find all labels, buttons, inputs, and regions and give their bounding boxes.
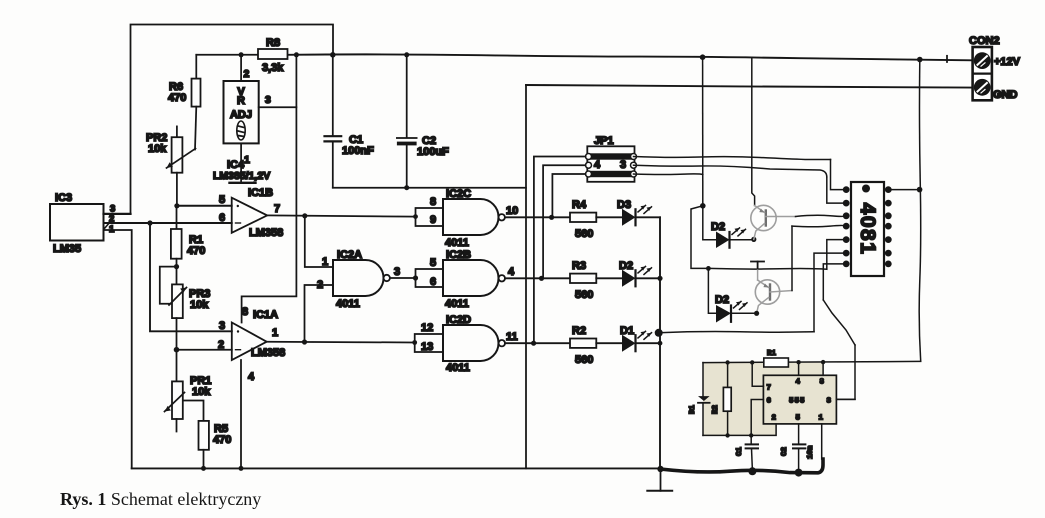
resistor R2 555	[723, 363, 731, 436]
wire IC3 pin2 to IC1B pin6	[104, 222, 232, 224]
svg-text:2: 2	[218, 339, 224, 351]
wire IC2C output pin10	[505, 216, 570, 218]
wire IC2D input bracket	[415, 334, 443, 352]
node rail R2	[725, 360, 729, 364]
svg-text:IC2C: IC2C	[446, 188, 471, 200]
svg-text:7: 7	[274, 203, 280, 215]
svg-text:100nF: 100nF	[342, 145, 374, 157]
connector CON2	[973, 47, 992, 100]
wire D2 cathode to bus	[636, 277, 661, 279]
potentiometer PR2	[167, 126, 196, 205]
wire 555 top rail	[703, 361, 921, 362]
svg-text:1: 1	[322, 256, 328, 268]
wire IC1A pin4 to gnd	[240, 360, 242, 468]
svg-text:D3: D3	[617, 199, 631, 211]
svg-text:7: 7	[767, 385, 772, 393]
svg-text:IC2B: IC2B	[446, 249, 471, 261]
svg-text:C1: C1	[736, 446, 744, 456]
svg-text:4: 4	[594, 159, 601, 171]
wire IC2C input bracket	[416, 208, 444, 226]
svg-text:100uF: 100uF	[417, 146, 449, 158]
resistor R1	[171, 206, 182, 267]
wire IC1B pin5	[177, 205, 232, 207]
wire IC1A pin2	[177, 349, 232, 351]
svg-text:GND: GND	[993, 89, 1018, 101]
svg-text:12: 12	[421, 322, 433, 334]
svg-text:D1: D1	[620, 325, 634, 337]
node lower branch pin5 tap	[706, 266, 711, 271]
svg-text:4081: 4081	[856, 203, 879, 256]
wire JP1 left row1 to IC2D out	[534, 157, 586, 344]
svg-text:6: 6	[219, 212, 225, 224]
svg-text:3,3k: 3,3k	[262, 62, 284, 74]
node Q2 emitter	[754, 311, 759, 316]
nand gate IC2A	[333, 260, 390, 296]
wire JP1 left row2 to IC2B out	[542, 165, 586, 278]
potentiometer PR1	[165, 350, 185, 432]
svg-text:IC1A: IC1A	[253, 309, 278, 321]
wire 555 block bottom	[703, 424, 776, 436]
node C2 gnd	[404, 185, 409, 190]
wire 4081 pin top right to +12 vertical	[888, 189, 919, 191]
svg-text:8: 8	[430, 196, 436, 208]
svg-text:JP1: JP1	[594, 135, 614, 147]
svg-text:2: 2	[772, 415, 777, 423]
node bottom R2	[725, 433, 729, 437]
wire IC1A pin3	[150, 223, 232, 331]
wire D3 cathode to bus	[636, 216, 661, 218]
capacitor C2 electrolytic	[397, 55, 417, 188]
wire JP1 right row3 down	[634, 173, 703, 176]
svg-text:11: 11	[506, 331, 518, 343]
svg-text:10n: 10n	[807, 445, 815, 459]
node IC2D in	[412, 340, 417, 345]
node C2b gnd	[795, 469, 803, 477]
svg-text:3: 3	[620, 159, 626, 171]
wire 555 pin8	[822, 362, 824, 375]
led D3	[622, 205, 652, 225]
wire +12V rail	[196, 54, 972, 60]
wire IC4 pin2	[240, 55, 242, 81]
node rail-C1-frame	[330, 52, 336, 58]
node IC2B out jumper tap	[539, 276, 544, 281]
led D1	[622, 331, 652, 351]
svg-text:8: 8	[242, 306, 248, 318]
resistor R5	[184, 401, 209, 469]
led D2	[622, 266, 652, 286]
node IC2A out	[413, 275, 418, 280]
capacitor C2 555	[793, 424, 805, 472]
IC 555 body	[763, 375, 836, 424]
node 4081 right	[917, 187, 923, 193]
node Q branch	[700, 203, 706, 209]
node rail pin7	[750, 360, 754, 364]
T mark above Q2	[751, 262, 764, 269]
wire D1 cathode to bus	[636, 342, 661, 344]
svg-text:560: 560	[575, 228, 593, 240]
wire IC2A output pin3	[390, 277, 416, 279]
svg-text:8: 8	[820, 379, 825, 387]
svg-text:D2: D2	[619, 260, 633, 272]
wire IC4 pin3	[259, 106, 297, 108]
wire 555 pin1	[821, 424, 823, 459]
wire IC2B output pin4	[505, 277, 570, 279]
svg-text:470: 470	[213, 434, 231, 446]
node C1b gnd	[748, 467, 756, 475]
svg-text:10k: 10k	[148, 143, 167, 155]
svg-text:IC2D: IC2D	[446, 314, 471, 326]
svg-text:Rys. 1 Schemat elektryczny: Rys. 1 Schemat elektryczny	[60, 489, 261, 509]
svg-text:470: 470	[168, 92, 186, 104]
node IC1A pin2 junction	[174, 347, 180, 353]
node IC2C out jumper tap	[549, 215, 554, 220]
potentiometer PR3	[160, 267, 187, 350]
wire bottom ground rail	[132, 467, 661, 469]
wire JP1 right row2 to 4081 pin2	[634, 165, 847, 203]
svg-text:3: 3	[827, 398, 832, 406]
wire D2 upper cathode	[730, 239, 754, 241]
svg-text:10k: 10k	[192, 386, 211, 398]
node rail-IC4pin2	[239, 52, 244, 57]
transistor Q2	[755, 269, 792, 314]
wire 555 pin7	[752, 362, 763, 386]
svg-text:LM358: LM358	[251, 347, 285, 359]
svg-text:2: 2	[317, 279, 323, 291]
svg-text:R2: R2	[572, 325, 586, 337]
555 block background	[703, 363, 836, 436]
svg-text:R8: R8	[266, 37, 280, 49]
resistor R4	[570, 213, 622, 222]
wire IC3 pin1	[104, 230, 132, 468]
node R5 gnd	[201, 466, 206, 471]
node D2 bus	[657, 276, 662, 281]
diode D1 555	[698, 363, 710, 436]
svg-text:4: 4	[248, 371, 255, 383]
wire GND rail	[526, 85, 973, 468]
svg-text:1: 1	[272, 327, 278, 339]
svg-text:LM385/1,2V: LM385/1,2V	[213, 170, 270, 182]
wire 4081 pin7 to 555 pin3	[823, 264, 855, 400]
wire branch to upper led D2	[703, 206, 716, 240]
led D2 lower	[716, 301, 747, 322]
nand gate IC2B	[443, 260, 505, 296]
wire IC1A output pin1	[267, 341, 415, 344]
node rail-Q1feed	[700, 54, 706, 60]
nand gate IC2D	[443, 325, 505, 361]
svg-text:4011: 4011	[445, 237, 469, 249]
wire C1 C2 ground link	[333, 187, 526, 189]
node Q1 emitter	[751, 237, 756, 242]
svg-text:560: 560	[575, 289, 593, 301]
svg-text:4011: 4011	[446, 362, 470, 374]
wire led cathode bus vertical	[659, 217, 661, 468]
wire IC2B input bracket	[416, 269, 444, 287]
wire +12 vertical right	[919, 60, 921, 362]
wire tick before CON2	[946, 56, 948, 62]
node rail pin8	[821, 360, 825, 364]
svg-text:4: 4	[796, 379, 801, 387]
led D2 upper	[716, 228, 746, 248]
op-amp IC1B	[232, 198, 268, 233]
svg-text:C2: C2	[781, 446, 789, 456]
wire IC2A pin2	[305, 285, 334, 342]
op-amp IC1A	[232, 323, 267, 361]
node rail-C2	[404, 52, 409, 57]
node R1 PR3 junction	[174, 264, 179, 269]
IC 4081	[843, 182, 892, 276]
resistor R2	[570, 339, 622, 348]
node IC1B out to IC2A	[302, 213, 307, 218]
svg-text:CON2: CON2	[969, 35, 1000, 47]
svg-text:6: 6	[767, 398, 772, 406]
IC3 LM35 body	[50, 204, 104, 241]
wire JP1 left row3 to IC2C out	[552, 174, 586, 217]
svg-text:+12V: +12V	[994, 56, 1021, 68]
capacitor C1	[325, 55, 342, 188]
node IC2C in	[413, 214, 418, 219]
svg-text:D2: D2	[711, 221, 725, 233]
wire IC4 pin1	[240, 143, 242, 182]
svg-text:5: 5	[219, 194, 225, 206]
node bus to 555 net	[655, 329, 663, 337]
svg-text:10: 10	[506, 205, 518, 217]
node rail-IC1pin8	[294, 52, 299, 57]
node pin5 junction	[174, 203, 179, 208]
node bottom C1	[749, 433, 753, 437]
svg-text:1: 1	[819, 415, 824, 423]
capacitor C1 555	[746, 435, 758, 470]
node IC1A out to IC2A	[302, 339, 307, 344]
svg-text:1: 1	[109, 224, 115, 235]
svg-text:R3: R3	[572, 260, 586, 272]
svg-text:555: 555	[789, 398, 806, 406]
svg-text:560: 560	[575, 354, 593, 366]
node IC1A pin4 gnd	[239, 466, 244, 471]
wire 555 pin3 stub	[836, 398, 855, 400]
svg-text:LM358: LM358	[249, 227, 283, 239]
svg-text:R1: R1	[767, 350, 777, 358]
svg-text:3: 3	[394, 266, 400, 278]
svg-text:3: 3	[219, 320, 225, 332]
nand gate IC2C	[443, 199, 505, 235]
wire IC1A pin8 to rail	[242, 55, 297, 323]
wire JP1 right row1 to 4081 pin1	[634, 157, 847, 190]
wire IC2A pin1	[305, 216, 333, 267]
svg-text:470: 470	[187, 245, 205, 257]
jumper JP1	[586, 146, 637, 182]
svg-text:LM35: LM35	[53, 243, 81, 255]
wire +12 drop to Q1 D2 branch	[702, 57, 704, 206]
svg-text:3: 3	[265, 94, 271, 106]
svg-text:9: 9	[430, 214, 436, 226]
svg-text:13: 13	[421, 341, 433, 353]
svg-text:6: 6	[430, 276, 436, 288]
node gnd rail corner	[657, 466, 663, 472]
transistor Q1	[751, 205, 796, 239]
wire IC3 pin3	[104, 213, 131, 215]
svg-text:R2: R2	[712, 404, 720, 414]
wire +12 drop to Q1 emitter	[752, 58, 755, 206]
svg-text:5: 5	[796, 415, 801, 423]
wire 555 pin4	[798, 362, 800, 375]
wire IC2D output pin11	[505, 342, 570, 344]
svg-text:4011: 4011	[336, 298, 360, 310]
node rail pin4	[796, 360, 800, 364]
wire lower branch to 4081 pin5	[708, 240, 846, 270]
svg-text:D2: D2	[715, 294, 729, 306]
wire branch to lower led D2	[691, 206, 716, 313]
svg-text:IC2A: IC2A	[337, 249, 362, 261]
node D1 bus	[658, 341, 663, 346]
pin2 arrow tick	[104, 218, 114, 229]
svg-text:10k: 10k	[190, 299, 209, 311]
resistor R6	[192, 55, 201, 150]
node rail-4081	[917, 57, 923, 63]
wire 555 pin6	[751, 400, 763, 436]
resistor R8	[258, 49, 288, 59]
wire bus to 555 pin6 net	[659, 253, 847, 333]
svg-text:R: R	[237, 95, 245, 107]
wire Q2 collector to 4081 pin4	[792, 225, 846, 290]
node IC2D out jumper tap	[531, 341, 536, 346]
resistor R1 555	[764, 358, 789, 367]
svg-text:IC3: IC3	[55, 192, 72, 204]
wire thick ground run to 555	[661, 459, 824, 473]
IC4 LM385 body	[224, 81, 259, 143]
ground	[647, 468, 672, 490]
resistor R3	[570, 274, 622, 283]
ground IC4	[230, 182, 256, 184]
node IC3 pin2 junction	[147, 220, 152, 225]
wire Q1 collector to 4081 pin3	[796, 215, 847, 216]
svg-text:ADJ: ADJ	[230, 109, 252, 121]
wire IC1B output pin7	[267, 215, 415, 216]
wire D2 lower cathode	[731, 312, 757, 314]
svg-text:D1: D1	[689, 404, 697, 414]
wire top frame from IC3 pin3 up and across to +12 rail	[131, 25, 334, 214]
svg-text:1: 1	[244, 154, 250, 166]
svg-text:2: 2	[244, 68, 250, 80]
svg-text:R4: R4	[572, 199, 587, 211]
svg-text:IC1B: IC1B	[248, 187, 273, 199]
svg-text:5: 5	[430, 257, 436, 269]
svg-text:4011: 4011	[445, 298, 469, 310]
svg-text:4: 4	[508, 266, 515, 278]
